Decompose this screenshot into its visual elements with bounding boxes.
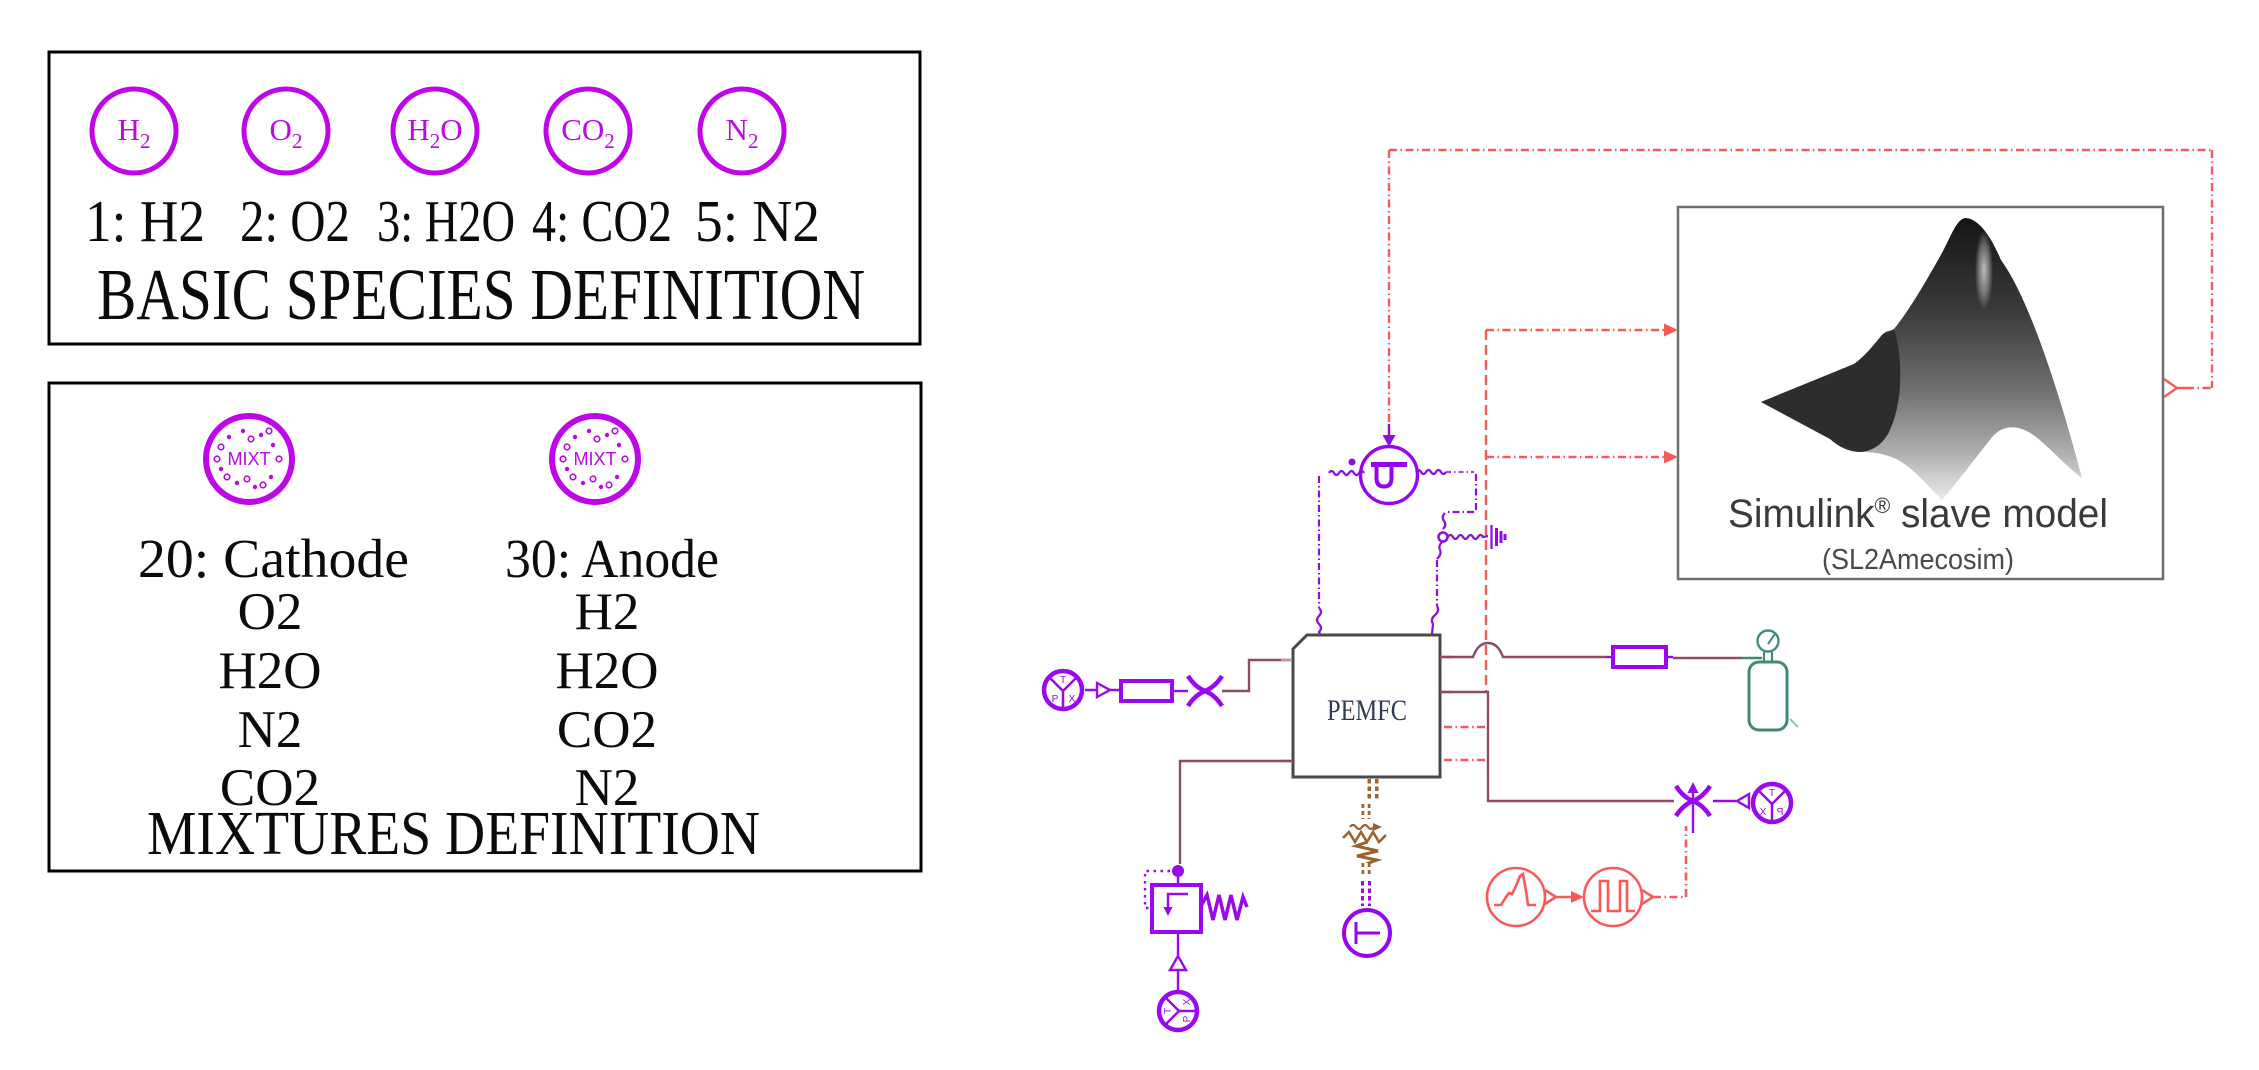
thermal zigzag horizontal [1343,832,1386,842]
svg-text:4: CO2: 4: CO2 [532,188,672,254]
ramp output port [1545,890,1556,904]
box frame 2 [49,383,921,871]
node dot left of sensor [1349,459,1356,466]
arrowhead between sources [1571,891,1584,903]
thermal connector ladder 1 [1368,779,1379,801]
species circle O2 [244,89,328,173]
svg-text:BASIC SPECIES DEFINITION: BASIC SPECIES DEFINITION [97,254,865,335]
wire red output stub [2186,387,2212,389]
wire wavy to node [1443,513,1446,529]
wire wavy to ground [1448,535,1488,539]
arrow into voltage sensor [1388,424,1391,437]
gas bottle [1749,631,1798,731]
voltage sensor U [1361,447,1418,504]
exhaust triangle [1713,794,1749,808]
pemfc stack [1293,635,1440,777]
svg-text:1: H2: 1: H2 [85,188,205,254]
thermal connector ladder 3 [1362,863,1371,876]
ramp source [1487,868,1545,926]
svg-text:H2O: H2O [555,642,658,700]
svg-text:PEMFC: PEMFC [1327,694,1407,727]
wire wavy into pemfc top right [1432,606,1438,634]
temperature sensor T [1344,910,1390,956]
control dotted line [1145,871,1170,908]
wire red feedback top [1389,149,2212,151]
outlet pipe [1613,647,1666,667]
wire wavy sensor left [1329,471,1364,475]
wire to bottle [1673,657,1742,659]
species circle CO2 [546,89,630,173]
matlab membrane logo [1761,218,2082,500]
air inlet source [1044,671,1082,709]
thermal zigzag vertical [1356,842,1378,864]
thermal connector ladder purple [1361,881,1371,906]
svg-text:MIXT: MIXT [574,449,617,469]
mixture icon 30 [552,416,638,502]
svg-text:Simulink® slave model: Simulink® slave model [1728,492,2108,536]
svg-text:3: H2O: 3: H2O [377,188,515,254]
svg-text:H2O: H2O [218,642,321,700]
wire control to valve [1653,896,1686,899]
wire pemfc to relief valve [1180,761,1293,864]
wire red to simulink input 1 [1486,329,1665,331]
svg-text:MIXT: MIXT [228,449,271,469]
species circle N2 [700,89,784,173]
vent sink [1159,992,1197,1030]
heat flow wavy arrow [1350,825,1374,829]
svg-text:O2: O2 [238,583,303,641]
pulse source [1584,868,1642,926]
svg-text:N2: N2 [238,701,303,759]
inlet valve [1188,676,1222,706]
species circle H2 [92,89,176,173]
wire red pemfc port 4 [1444,759,1486,761]
relief valve body [1152,885,1201,932]
wire wavy sensor right [1416,470,1446,474]
wire wavy into pemfc top left [1317,608,1321,634]
wire cathode out with crossover bump [1440,643,1607,657]
svg-text:5: N2: 5: N2 [695,188,820,254]
mixture icon 20 [206,416,292,502]
wire control down to pemfc [1436,560,1438,606]
wire red vertical trunk [1485,330,1487,692]
wire anode exhaust [1440,692,1674,801]
output branch connector [2164,379,2187,397]
wire red pemfc port 3 [1444,726,1486,728]
svg-text:MIXTURES DEFINITION: MIXTURES DEFINITION [147,800,760,868]
wire red feedback vertical left [1388,150,1390,424]
pulse output port [1642,890,1653,904]
svg-text:2: O2: 2: O2 [240,188,350,254]
simulink box frame [1678,207,2163,579]
wire red feedback right vertical [2211,150,2213,388]
box frame 1 [49,52,920,344]
thermal connector ladder 2 [1362,804,1371,819]
svg-text:H2: H2 [575,583,640,641]
wire control right dashes [1446,471,1474,473]
junction dot [1172,865,1184,877]
inlet pipe [1121,681,1172,701]
inlet arrow triangle [1085,683,1121,697]
wire red to simulink input 2 [1486,456,1665,458]
exhaust sink [1753,784,1791,822]
port stubs [1281,657,1452,761]
svg-text:30: Anode: 30: Anode [505,528,719,589]
wire to pemfc anode in [1222,660,1292,691]
svg-text:(SL2Amecosim): (SL2Amecosim) [1822,544,2014,576]
electrical ground [1492,525,1506,549]
wire control left vertical [1318,476,1320,608]
wire wavy below node [1437,542,1442,559]
electrical node [1439,533,1448,542]
relief valve spring [1201,895,1247,920]
wire below relief valve [1177,932,1179,956]
arrowhead into simulink input 1 [1664,324,1678,337]
exhaust variable valve [1676,786,1710,816]
check triangle [1170,956,1186,970]
arrowhead into simulink input 2 [1664,451,1678,464]
svg-text:CO2: CO2 [557,701,657,759]
svg-text:20: Cathode: 20: Cathode [138,528,409,589]
species circle H2O [393,89,477,173]
